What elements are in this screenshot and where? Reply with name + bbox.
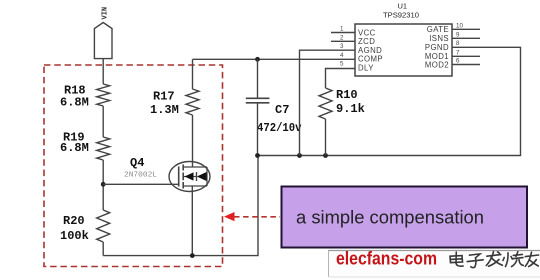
svg-text:Q4: Q4: [130, 156, 144, 170]
pin 9 ISNS: [452, 37, 480, 39]
svg-text:1: 1: [340, 26, 344, 33]
node R10/rail junction: [323, 153, 328, 158]
wire C7 top lead: [257, 59, 259, 98]
svg-text:MOD2: MOD2: [425, 60, 449, 69]
wire AGND net: [300, 50, 356, 155]
svg-text:472/10v: 472/10v: [257, 121, 302, 135]
pin 7 MOD1: [452, 55, 480, 57]
logo white band: [328, 251, 540, 278]
svg-text:9: 9: [456, 31, 460, 38]
pin 1 VCC: [331, 32, 355, 34]
svg-text:DLY: DLY: [358, 63, 374, 72]
svg-text:R17: R17: [153, 90, 175, 104]
transistor Q4: [169, 162, 210, 192]
annotation box: a simple compensation: [282, 187, 528, 248]
svg-text:ISNS: ISNS: [429, 34, 449, 43]
svg-text:COMP: COMP: [358, 55, 383, 64]
svg-text:6.8M: 6.8M: [60, 96, 89, 110]
wire DLY net: [326, 69, 356, 89]
svg-text:2: 2: [340, 34, 344, 41]
svg-text:7: 7: [456, 49, 460, 56]
red dashed highlight box: [44, 65, 223, 267]
red arrowhead: [224, 212, 235, 221]
logo text fa (emit): [486, 252, 502, 267]
svg-text:6: 6: [456, 58, 460, 65]
node source junction: [190, 253, 195, 258]
logo text shao (burn): [503, 252, 523, 267]
resistor R10: [319, 88, 332, 119]
svg-text:a simple compensation: a simple compensation: [296, 208, 484, 228]
svg-text:GATE: GATE: [427, 25, 449, 34]
wire R19 to R20: [102, 160, 104, 210]
svg-text:ZCD: ZCD: [358, 37, 375, 46]
node AGND/rail junction: [297, 153, 302, 158]
svg-text:C7: C7: [275, 103, 289, 117]
resistor R19: [97, 137, 110, 160]
op-amp U1 TPS92310: [355, 24, 452, 76]
wire bottom rail: [103, 156, 258, 256]
connector J VIN: [94, 23, 112, 59]
wire VIN to R18: [102, 59, 104, 84]
svg-text:9.1k: 9.1k: [336, 102, 365, 116]
svg-text:3: 3: [340, 43, 344, 50]
logo text you (friend): [525, 252, 538, 266]
svg-text:5: 5: [340, 61, 344, 68]
svg-text:R10: R10: [336, 88, 358, 102]
capacitor C7: [246, 98, 270, 103]
svg-text:elecfans-com: elecfans-com: [336, 249, 437, 269]
svg-text:1.3M: 1.3M: [150, 103, 179, 117]
svg-text:R20: R20: [63, 214, 85, 228]
pin 6 MOD2: [452, 64, 480, 66]
svg-text:VCC: VCC: [358, 28, 376, 37]
wire COMP net: [193, 58, 356, 60]
pin 10 GATE: [452, 28, 480, 30]
wire R10 bottom: [325, 119, 327, 156]
resistor R18: [97, 84, 110, 106]
svg-text:2N7002L: 2N7002L: [124, 172, 157, 180]
svg-text:4: 4: [340, 52, 344, 59]
resistor R20: [97, 210, 110, 242]
node gate junction: [101, 182, 106, 187]
wire R17 to Q4 drain: [192, 115, 194, 167]
wire ground rail: [258, 47, 521, 155]
svg-text:100k: 100k: [60, 229, 89, 243]
wire R18 to R19: [102, 106, 104, 137]
wire COMP to R17: [192, 59, 194, 89]
svg-text:6.8M: 6.8M: [60, 141, 89, 155]
logo text zi (child): [467, 254, 483, 268]
wire gate net: [103, 183, 179, 185]
svg-text:TPS92310: TPS92310: [383, 11, 419, 20]
node COMP/C7 junction: [255, 57, 260, 62]
svg-text:PGND: PGND: [425, 43, 449, 52]
node C7/rail junction: [255, 153, 260, 158]
red dashed arrow line: [234, 216, 280, 218]
svg-text:AGND: AGND: [358, 46, 382, 55]
wire R20 to bottom rail: [102, 242, 104, 256]
svg-text:VIN: VIN: [102, 7, 110, 20]
svg-text:10: 10: [456, 22, 463, 29]
svg-text:8: 8: [456, 40, 460, 47]
logo text dian (electric): [450, 252, 463, 266]
svg-text:U1: U1: [398, 2, 408, 11]
resistor R17: [186, 89, 199, 115]
pin 2 ZCD: [331, 40, 355, 42]
wire Q4 source: [191, 186, 193, 256]
wire C7 bottom lead: [257, 103, 259, 156]
